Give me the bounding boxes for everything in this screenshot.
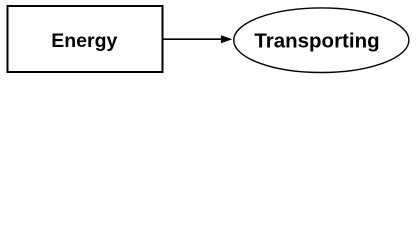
ellipse Transporting	[234, 8, 409, 73]
svg-text:Energy: Energy	[51, 30, 117, 52]
svg-text:Transporting: Transporting	[254, 30, 379, 53]
box Energy	[8, 6, 163, 72]
wire arrow shaft	[164, 38, 223, 40]
arrowhead	[221, 35, 232, 43]
